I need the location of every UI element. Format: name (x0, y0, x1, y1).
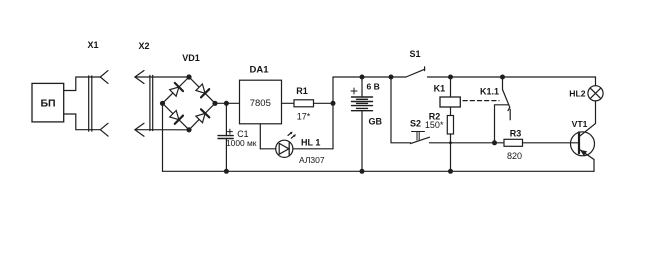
connector X2 body bars (150, 75, 153, 130)
capacitor C1 plates (218, 136, 233, 139)
node GB top (360, 75, 365, 80)
svg-text:X1: X1 (87, 40, 98, 50)
resistor R1 (294, 100, 314, 107)
wire bridge right node to DA1 input (215, 102, 240, 104)
wire node up to top rail and down to HL1 (332, 77, 334, 149)
LED HL1 (276, 140, 293, 157)
node R2 bottom (448, 169, 453, 174)
svg-text:R1: R1 (296, 86, 308, 96)
switch S2 lever (411, 137, 430, 143)
node bridge right (212, 101, 217, 106)
svg-text:HL2: HL2 (569, 89, 585, 99)
wire DA1 output (282, 102, 295, 104)
VT1 base bar (578, 132, 580, 153)
wire R1 to node (314, 102, 334, 104)
relay K1 to K1.1 dashed link (463, 100, 499, 102)
battery GB plus (351, 88, 357, 94)
wire bridge left node down to bottom rail (162, 103, 164, 171)
wire K1 to R2 (450, 107, 452, 116)
node C1 bottom (224, 169, 229, 174)
svg-text:150*: 150* (425, 120, 444, 130)
resistor R3 (504, 139, 523, 146)
wire X2 bottom pin to bridge bottom node (135, 129, 189, 131)
svg-text:K1: K1 (434, 84, 446, 94)
battery GB bottom lead (361, 111, 363, 172)
VT1 collector (579, 101, 595, 137)
connector X1 plug pin top (100, 71, 108, 84)
node K1.1 top (500, 75, 505, 80)
wire K1 coil top lead (450, 77, 452, 97)
relay coil K1 (440, 97, 460, 107)
node bridge bottom (186, 127, 191, 132)
wire HL1 anode from DA1 (260, 148, 275, 150)
diode VD1.3 (left to bottom) (170, 111, 179, 120)
wire K1.1 bottom terminal (495, 105, 509, 143)
node C1 top (224, 101, 229, 106)
svg-text:VT1: VT1 (572, 119, 588, 129)
diode VD1.4 (bottom to right) (196, 113, 205, 122)
wire БП bottom lead (64, 114, 101, 130)
svg-text:GB: GB (369, 117, 383, 127)
VT1 emitter arrow (580, 150, 587, 156)
transistor VT1 (571, 132, 595, 156)
wire top rail left segment (333, 76, 406, 78)
svg-text:АЛ307: АЛ307 (299, 155, 325, 165)
capacitor C1 bottom lead (225, 139, 227, 172)
wire HL2 top lead (595, 77, 597, 86)
switch S2 plunger (412, 132, 425, 141)
svg-text:HL 1: HL 1 (301, 137, 320, 147)
connector X2 socket pin top (135, 71, 144, 84)
node S2 branch top (389, 75, 394, 80)
svg-text:K1.1: K1.1 (480, 87, 499, 97)
node R2 crossing (449, 141, 452, 144)
resistor R2 (447, 116, 453, 135)
wire HL1 cathode to node (293, 148, 333, 150)
capacitor C1 polarity plus (227, 129, 232, 134)
connector X1 body bars (89, 76, 92, 131)
wire X2 top pin to bridge top node (135, 76, 189, 78)
wire DA1 ground lead (259, 124, 261, 149)
node K1 top (448, 75, 453, 80)
battery GB top lead (361, 77, 363, 97)
relay contact K1.1 top lead (502, 77, 504, 90)
VT1 emitter (579, 149, 594, 171)
svg-text:820: 820 (507, 151, 522, 161)
battery GB plates (352, 97, 373, 111)
diode VD1.1 (left to top) (170, 87, 179, 96)
node R1 output (331, 101, 336, 106)
svg-text:6 В: 6 В (367, 82, 380, 92)
svg-text:S1: S1 (409, 49, 420, 59)
svg-text:DA1: DA1 (249, 65, 269, 76)
wire R2 bottom lead to rail (450, 134, 452, 171)
diode bridge VD1 frame (163, 77, 216, 130)
svg-text:1000 мк: 1000 мк (226, 138, 257, 148)
wire БП top lead (64, 77, 101, 91)
capacitor C1 top lead (225, 103, 227, 135)
wire R3 to VT1 base (523, 142, 580, 144)
node bridge top (186, 74, 191, 79)
wire S2 branch down and right (391, 77, 411, 143)
lamp HL2 (588, 86, 603, 101)
power supply box БП (32, 83, 64, 122)
svg-text:X2: X2 (138, 41, 149, 51)
wire top rail right of S1 (428, 76, 596, 78)
node GB bottom (360, 169, 365, 174)
node bridge left (160, 101, 165, 106)
diode VD1.2 (top to right) (196, 84, 205, 93)
svg-text:БП: БП (40, 98, 55, 110)
relay contact K1.1 bottom stub (509, 109, 511, 120)
LED HL1 emission arrows (288, 133, 294, 138)
svg-text:17*: 17* (297, 112, 311, 122)
svg-text:7805: 7805 (250, 98, 271, 109)
connector X2 socket pin bottom (135, 123, 144, 136)
wire S2 to R3 junction (430, 142, 505, 144)
wire bottom rail (163, 170, 595, 172)
relay contact K1.1 lever (503, 90, 510, 111)
node K1.1 / R3 junction (492, 140, 497, 145)
svg-text:R3: R3 (510, 128, 522, 138)
voltage regulator DA1 (240, 80, 282, 124)
connector X1 plug pin bottom (100, 123, 108, 136)
svg-text:S2: S2 (410, 119, 421, 129)
switch S1 lever (406, 67, 425, 77)
svg-text:VD1: VD1 (182, 53, 200, 63)
